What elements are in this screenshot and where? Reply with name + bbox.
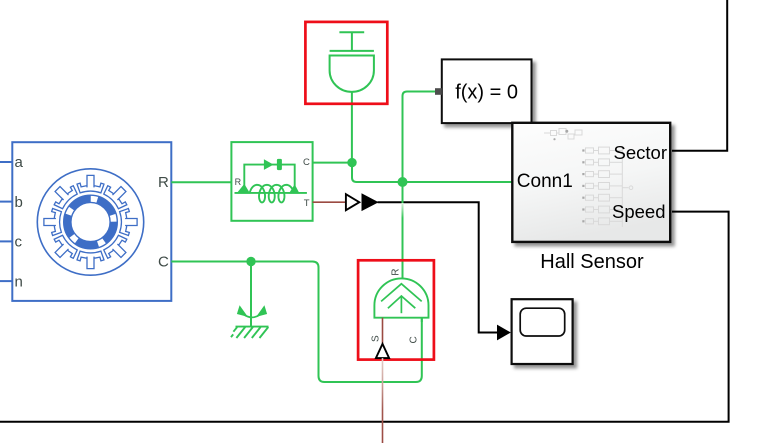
motor rotor ring — [64, 195, 118, 249]
solenoid left arrow — [236, 184, 250, 194]
svg-text:C: C — [303, 157, 310, 168]
filled buffer triangle — [362, 193, 379, 211]
svg-text:b: b — [15, 194, 23, 211]
sensor C stub — [421, 318, 423, 322]
scope input arrow — [497, 325, 511, 341]
junction dot 2 — [398, 177, 408, 187]
scope screen — [520, 308, 565, 336]
svg-text:Hall Sensor: Hall Sensor — [540, 251, 644, 273]
wire battery stem — [351, 92, 353, 163]
solenoid right arrow — [289, 184, 300, 193]
wire Sector to top edge — [672, 0, 727, 151]
wire Speed to bottom bus — [0, 212, 729, 422]
wire junction to rotational reference — [250, 262, 252, 327]
diode arrow — [264, 159, 274, 170]
Hall Sensor block — [512, 123, 670, 242]
hall faint dots — [553, 130, 584, 223]
motor block (PMSM) — [12, 142, 171, 301]
battery top bar — [339, 31, 364, 33]
svg-text:C: C — [408, 336, 419, 343]
junction dot 1 — [347, 158, 356, 167]
wire buffer to scope — [378, 202, 498, 332]
svg-text:Sector: Sector — [614, 142, 667, 163]
rotation arrow right — [256, 305, 267, 317]
svg-text:Speed: Speed — [612, 201, 666, 222]
port n stub — [0, 280, 12, 282]
solenoid block — [231, 142, 312, 221]
sensor chevron small — [388, 296, 415, 308]
rotational reference bar — [236, 326, 269, 328]
svg-text:R: R — [391, 268, 402, 275]
svg-text:n: n — [15, 273, 23, 290]
wire f(x) to junction2 and down to sensor R — [403, 92, 436, 204]
motor stator teeth — [44, 175, 137, 268]
port b stub — [0, 201, 12, 203]
solver port square — [435, 88, 442, 95]
sensor dome — [374, 278, 428, 317]
svg-text:f(x) = 0: f(x) = 0 — [455, 82, 518, 104]
junction dot on C wire — [246, 257, 255, 266]
battery cup — [330, 56, 374, 92]
svg-text:R: R — [158, 174, 169, 191]
diode bar — [277, 159, 282, 170]
S unconnected line — [382, 358, 384, 443]
wire motor C to sensor C (long run) — [171, 262, 421, 383]
port c stub — [0, 240, 12, 242]
hollow buffer triangle — [346, 194, 359, 210]
battery mid stem — [351, 32, 353, 51]
rotation arrow left — [237, 305, 248, 317]
wire junction1 down to Conn1 run — [352, 163, 512, 182]
rotation arc — [244, 315, 260, 318]
sensor S stub — [382, 318, 384, 345]
svg-text:a: a — [15, 154, 24, 171]
svg-text:T: T — [304, 198, 310, 209]
sensor stem — [400, 297, 402, 314]
solenoid bottom rail — [235, 192, 307, 194]
hall faint interior — [544, 129, 633, 228]
solenoid coil — [250, 185, 294, 203]
S hollow triangle — [376, 344, 389, 358]
svg-text:S: S — [370, 335, 381, 342]
rotational reference hatches — [231, 327, 268, 338]
svg-text:Conn1: Conn1 — [517, 171, 573, 192]
wire solenoid C to junction — [313, 162, 352, 164]
solenoid upper branch — [244, 165, 294, 186]
motor icon outer circle — [37, 169, 143, 275]
wire motor R to solenoid R — [171, 181, 231, 183]
solver block f(x)=0 — [442, 59, 532, 123]
sensor chevron big — [381, 284, 422, 302]
svg-text:C: C — [158, 254, 169, 271]
svg-text:c: c — [15, 234, 23, 251]
battery block red border — [305, 22, 387, 104]
wire T dark red — [313, 201, 346, 203]
battery plate bar — [330, 50, 374, 52]
svg-text:R: R — [235, 177, 242, 187]
port a stub — [0, 161, 12, 163]
scope block — [512, 299, 573, 364]
rotational sensor red border — [358, 260, 434, 359]
